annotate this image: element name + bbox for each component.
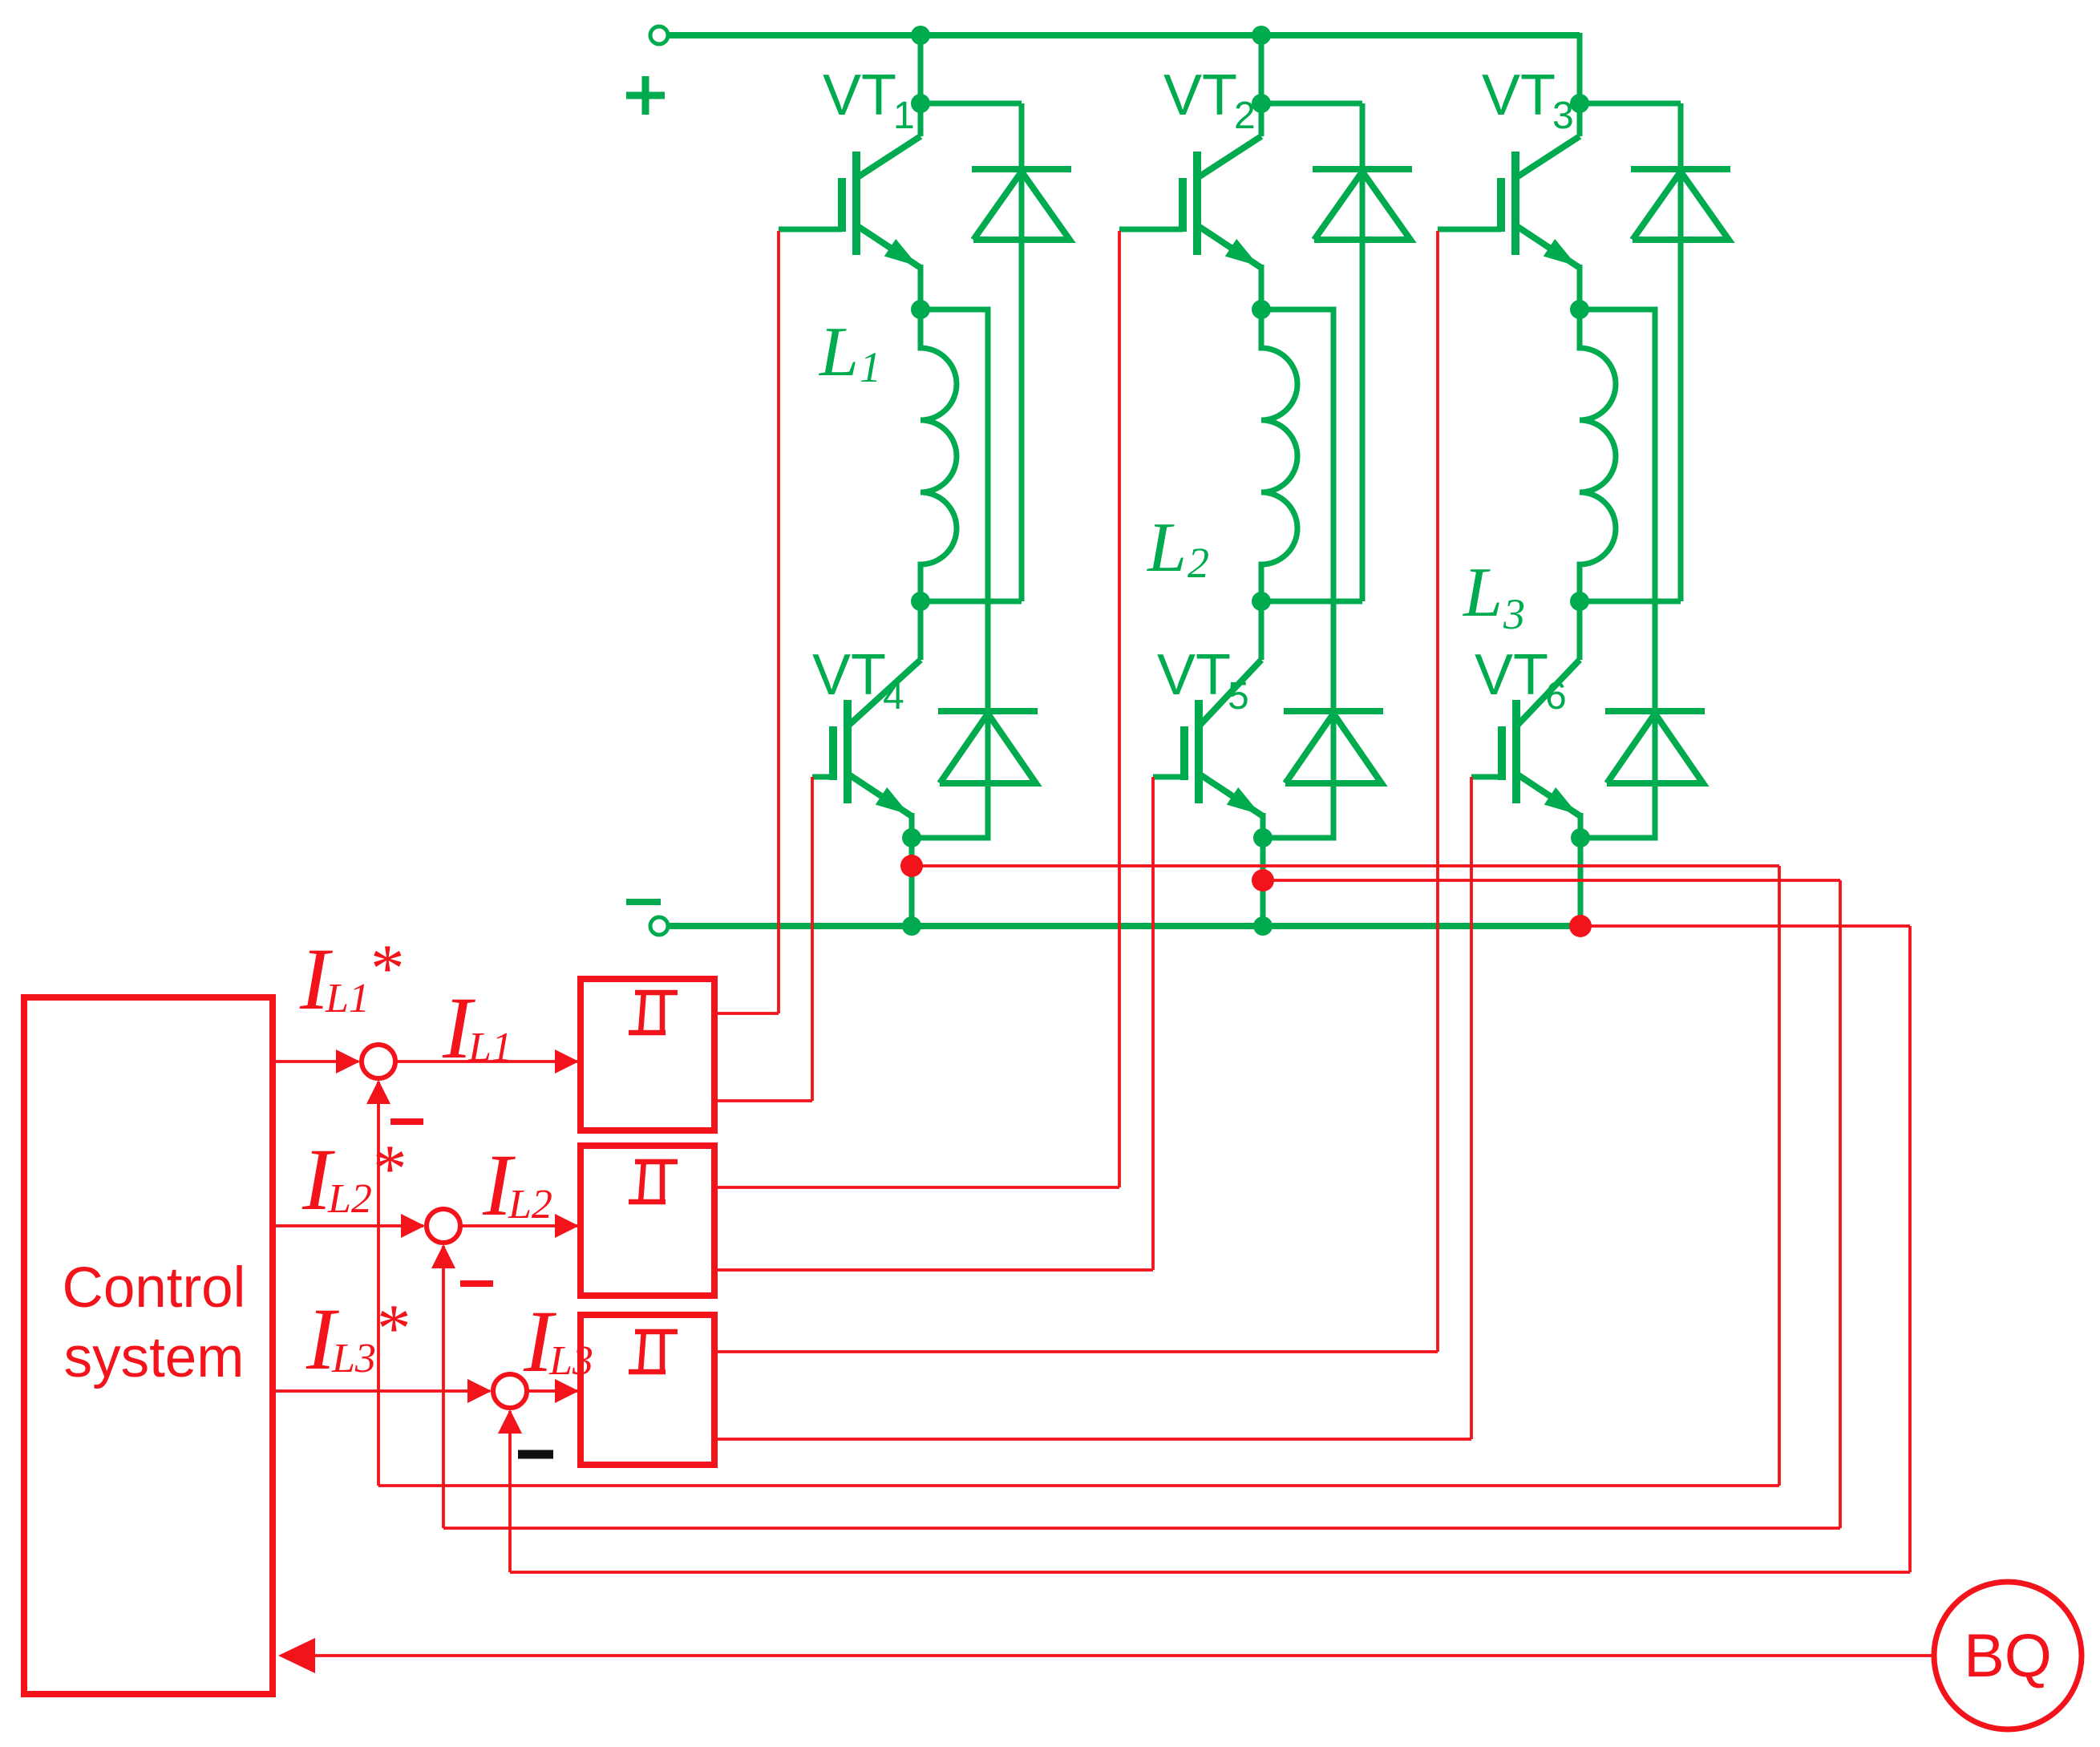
wire: VT5 emitter vertical: [1260, 813, 1266, 838]
wire: VT3 emitter to node A3: [1577, 265, 1583, 309]
diode VD2 cathode bar: [1313, 166, 1412, 172]
diode VD5 cathode bar: [1284, 708, 1383, 714]
label pulse symbol P2: [629, 1199, 666, 1205]
svg-text:VT: VT: [812, 643, 886, 707]
node B2: L2 bottom: [1252, 592, 1271, 611]
transistor VT3 (IGBT): [1577, 103, 1583, 136]
svg-text:VT: VT: [1475, 643, 1548, 707]
diode VD2 cathode wire: [1360, 103, 1366, 601]
block: pulse comparator P1: [581, 979, 714, 1130]
wire: emitter node down to -rail: [1260, 838, 1266, 926]
svg-text:2: 2: [1188, 539, 1209, 587]
wire: tap1 horizontal: [912, 864, 1779, 867]
svg-text:BQ: BQ: [1964, 1622, 2052, 1690]
wire: -DC bottom rail: [668, 923, 1580, 929]
inductor L3: [1580, 309, 1616, 601]
transistor VT6 (IGBT): [1577, 601, 1583, 660]
node: VT1 collector: [911, 94, 930, 113]
svg-text:L: L: [818, 313, 859, 391]
svg-text:L2: L2: [327, 1176, 372, 1222]
wire: diode VD6 anode down to emitter node: [1580, 711, 1655, 838]
label minus S1: [390, 1118, 423, 1125]
diode VD4 triangle: [940, 714, 1036, 783]
wire: VT5 gate wire: [1151, 777, 1155, 1270]
wire: IL1* reference: [273, 1060, 358, 1063]
wire: VT4 gate wire to pulse block: [716, 1099, 812, 1102]
svg-text:3: 3: [1503, 590, 1525, 638]
svg-text:L: L: [1146, 509, 1187, 587]
node: current tap col1: [900, 855, 923, 877]
node C1: VT4 emitter: [902, 828, 921, 847]
wire: VT2 gate wire to pulse block: [716, 1186, 1119, 1189]
svg-text:*: *: [367, 931, 402, 1006]
wire: diode VD5 anode down to emitter node: [1263, 711, 1333, 838]
label minus S3 (black): [518, 1450, 553, 1459]
wire: tap1 feedback to summer 1: [378, 1484, 1779, 1487]
wire: node A2 to lower diode VD5: [1261, 309, 1333, 711]
wire: collector node to diode VD3: [1580, 101, 1681, 107]
transistor VT4 (IGBT): [918, 601, 924, 660]
diode VD1 cathode bar: [972, 166, 1071, 172]
wire: VT4 gate wire: [811, 777, 814, 1101]
wire: VT3 gate wire to pulse block: [716, 1350, 1438, 1353]
wire: diode VD4 anode down to emitter node: [912, 711, 988, 838]
node B1: L1 bottom: [911, 592, 930, 611]
wire: VT6 gate wire: [1470, 777, 1473, 1439]
wire: IL3* reference: [273, 1389, 490, 1393]
node: -rail junction col1: [902, 916, 921, 936]
node: -rail junction col2: [1253, 916, 1273, 936]
node A3: VT3 emitter / L3 top: [1570, 300, 1589, 319]
wire: IL3 error to P3: [528, 1389, 578, 1393]
wire: top rail corner down to VT3: [1577, 33, 1583, 103]
wire: tap2 feedback to summer 2: [443, 1527, 1840, 1530]
diode VD3 cathode bar: [1631, 166, 1730, 172]
diode VD3 cathode wire: [1678, 103, 1684, 601]
wire: node A3 to lower diode VD6: [1580, 309, 1655, 711]
node: current tap col2: [1252, 869, 1274, 892]
wire: rail to VT1 collector: [918, 35, 924, 103]
wire: tap3 feedback to summer 3: [510, 1571, 1910, 1574]
wire: collector node to diode VD1: [921, 101, 1022, 107]
svg-text:1: 1: [893, 95, 915, 137]
summing junction S2: [427, 1209, 460, 1243]
label -: [626, 899, 661, 905]
wire: VT5 gate wire to pulse block: [716, 1268, 1153, 1272]
svg-text:*: *: [374, 1291, 408, 1366]
node: top rail junction col2: [1252, 26, 1271, 45]
node C2: VT5 emitter: [1253, 828, 1273, 847]
wire: node A1 to lower diode VD4: [921, 309, 988, 711]
svg-text:1: 1: [860, 343, 881, 391]
wire: node B3 to diode VD3 anode: [1580, 599, 1681, 605]
diode VD6 triangle: [1607, 714, 1703, 783]
node: current tap col3: [1569, 915, 1592, 937]
node: top rail junction col1: [911, 26, 930, 45]
node A1: VT1 emitter / L1 top: [911, 300, 930, 319]
svg-text:L1: L1: [325, 976, 370, 1021]
svg-text:VT: VT: [1482, 63, 1556, 127]
wire: IL1 error to P1: [397, 1060, 578, 1063]
summing junction S3: [493, 1374, 527, 1408]
wire: tap3 down: [1908, 926, 1912, 1572]
svg-text:*: *: [370, 1131, 404, 1207]
label pulse symbol P3: [629, 1369, 666, 1375]
wire: IL2 error to P2: [462, 1224, 578, 1227]
label +: [626, 92, 665, 99]
diode VD1 cathode wire: [1019, 103, 1025, 601]
block: pulse comparator P3: [581, 1315, 714, 1465]
summing junction S1: [362, 1045, 395, 1078]
wire: emitter node down to -rail: [909, 838, 915, 926]
transistor VT2 (IGBT): [1259, 103, 1264, 136]
diode VD3 triangle: [1633, 172, 1729, 240]
svg-text:3: 3: [1552, 95, 1574, 137]
svg-text:2: 2: [1234, 95, 1256, 137]
wire: VT2 gate wire: [1118, 231, 1121, 1187]
node B3: L3 bottom: [1570, 592, 1589, 611]
wire: BQ feedback to control system: [282, 1654, 1936, 1657]
node: VT2 collector: [1252, 94, 1271, 113]
wire: feedback into S2: [442, 1246, 445, 1528]
wire: collector node to diode VD2: [1261, 101, 1362, 107]
node: VT3 collector: [1570, 94, 1589, 113]
inductor L2: [1261, 309, 1297, 601]
node C3: VT6 emitter: [1571, 828, 1590, 847]
block: Control system box: [24, 997, 273, 1694]
wire: tap1 down: [1778, 866, 1781, 1486]
svg-text:L2: L2: [508, 1182, 552, 1227]
diode VD4 cathode bar: [938, 708, 1038, 714]
block: pulse comparator P2: [581, 1146, 714, 1296]
node: - DC terminal: [650, 917, 668, 935]
svg-text:5: 5: [1228, 675, 1249, 718]
svg-text:L1: L1: [467, 1025, 512, 1070]
wire: VT1 gate wire: [777, 231, 780, 1013]
wire: VT3 gate wire: [1436, 231, 1439, 1352]
wire: VT6 emitter vertical: [1578, 813, 1584, 838]
wire: VT6 gate wire to pulse block: [716, 1438, 1471, 1441]
wire: tap2 down: [1839, 880, 1842, 1528]
wire: node B2 to diode VD2 anode: [1261, 599, 1362, 605]
svg-text:L: L: [1462, 554, 1503, 632]
wire: tap3 horizontal: [1580, 924, 1910, 928]
svg-text:VT: VT: [1157, 643, 1231, 707]
svg-text:system: system: [64, 1326, 245, 1389]
wire: VT2 emitter to node A2: [1259, 265, 1264, 309]
wire: feedback into S3: [508, 1411, 512, 1572]
diode VD6 cathode bar: [1605, 708, 1705, 714]
node A2: VT2 emitter / L2 top: [1252, 300, 1271, 319]
svg-text:4: 4: [883, 675, 904, 718]
wire: rail to VT2 collector: [1259, 35, 1264, 103]
label pulse symbol P1: [629, 1030, 666, 1036]
wire: IL2* reference: [273, 1224, 423, 1227]
wire: feedback into S1: [377, 1082, 380, 1486]
wire: +DC top rail: [668, 32, 1580, 38]
diode VD5 triangle: [1285, 714, 1382, 783]
diode VD2 triangle: [1314, 172, 1410, 240]
wire: emitter node down to -rail: [1578, 838, 1584, 926]
transistor VT5 (IGBT): [1259, 601, 1264, 660]
svg-text:Control: Control: [63, 1256, 246, 1320]
wire: VT1 emitter to node A1: [918, 265, 924, 309]
svg-text:6: 6: [1545, 675, 1567, 718]
svg-text:VT: VT: [823, 63, 896, 127]
diode VD1 triangle: [973, 172, 1070, 240]
transistor VT1 (IGBT): [918, 103, 924, 136]
wire: node B1 to diode VD1 anode: [921, 599, 1022, 605]
label minus S2: [460, 1280, 493, 1287]
wire: tap2 horizontal: [1263, 879, 1840, 882]
wire: VT1 gate wire to pulse block: [716, 1012, 779, 1015]
svg-text:VT: VT: [1163, 63, 1237, 127]
sensor BQ circle: [1934, 1582, 2082, 1729]
svg-text:L3: L3: [331, 1336, 376, 1381]
node: + DC terminal: [650, 26, 668, 44]
svg-text:L3: L3: [548, 1338, 593, 1384]
inductor L1: [921, 309, 957, 601]
wire: VT4 emitter vertical: [909, 813, 915, 838]
